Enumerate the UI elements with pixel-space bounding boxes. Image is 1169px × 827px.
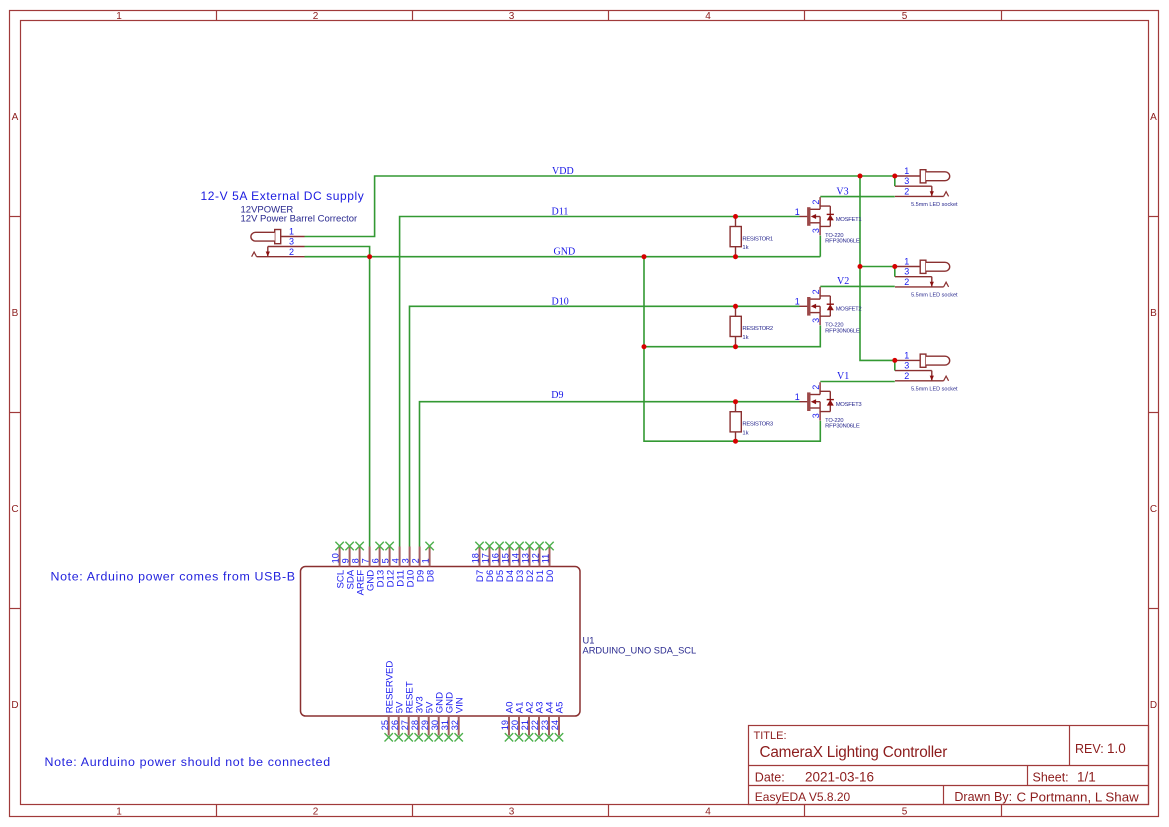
wire V3: Q1 drain to LED1 pin2 xyxy=(820,196,895,198)
svg-text:A5: A5 xyxy=(555,702,566,714)
junction xyxy=(892,358,897,363)
U1 pin 19 A0 xyxy=(500,702,516,742)
svg-text:REV:: REV: xyxy=(1075,742,1104,756)
resistor RESISTOR2 1k xyxy=(730,306,741,346)
U1 pin 12 D1 xyxy=(531,542,547,582)
svg-text:26: 26 xyxy=(390,720,400,730)
U1 pin 4 D11 xyxy=(391,547,407,587)
svg-text:30: 30 xyxy=(430,720,440,730)
junction xyxy=(892,264,897,269)
U1 pin 22 A3 xyxy=(530,702,546,742)
wire GND to Q2 source xyxy=(644,325,820,346)
svg-text:MOSFET3: MOSFET3 xyxy=(836,402,863,408)
svg-text:2: 2 xyxy=(313,11,319,22)
svg-text:1k: 1k xyxy=(742,335,748,341)
svg-text:32: 32 xyxy=(450,720,460,730)
svg-text:C: C xyxy=(11,504,18,515)
junction xyxy=(858,264,863,269)
svg-text:A: A xyxy=(12,112,19,123)
U1 pin 6 D13 xyxy=(371,542,387,588)
junction xyxy=(733,344,738,349)
junction xyxy=(733,214,738,219)
op-amp U1 ARDUINO_UNO box xyxy=(301,567,581,717)
wire barrel pin3 to GND junction xyxy=(305,247,370,257)
svg-text:GND: GND xyxy=(554,247,576,258)
junction xyxy=(642,254,647,259)
svg-text:D0: D0 xyxy=(545,570,556,582)
svg-text:1: 1 xyxy=(116,807,122,818)
svg-text:MOSFET1: MOSFET1 xyxy=(836,217,862,223)
svg-text:4: 4 xyxy=(705,11,711,22)
svg-text:8: 8 xyxy=(351,558,361,563)
svg-text:D: D xyxy=(1150,700,1157,711)
wire D9 from U1 pin2 to Q3 gate xyxy=(420,402,800,547)
U1 pin 14 D3 xyxy=(511,542,527,582)
svg-text:10: 10 xyxy=(331,553,341,563)
junction xyxy=(733,399,738,404)
svg-text:2: 2 xyxy=(289,247,294,257)
U1 pin 8 AREF xyxy=(351,542,367,596)
svg-text:VIN: VIN xyxy=(454,697,465,713)
svg-text:31: 31 xyxy=(440,720,450,730)
svg-text:3: 3 xyxy=(289,237,294,247)
wire GND rail down to Q3 source xyxy=(644,257,820,442)
svg-text:19: 19 xyxy=(500,720,510,730)
U1 pin 27 RESET xyxy=(400,681,416,741)
svg-text:1.0: 1.0 xyxy=(1107,741,1126,756)
svg-text:11: 11 xyxy=(541,554,551,564)
svg-text:16: 16 xyxy=(491,553,501,563)
svg-text:D11: D11 xyxy=(552,207,569,218)
svg-text:1/1: 1/1 xyxy=(1077,770,1096,785)
U1 pin 3 D10 xyxy=(401,547,417,588)
svg-text:Drawn By:: Drawn By: xyxy=(954,790,1012,804)
svg-text:Note: Arduino power comes from: Note: Arduino power comes from USB-B cab… xyxy=(51,570,333,584)
wire Q1 source to GND xyxy=(819,236,821,257)
junction xyxy=(892,174,897,179)
svg-text:TITLE:: TITLE: xyxy=(754,730,787,742)
svg-text:D9: D9 xyxy=(551,390,563,401)
U1 pin 18 D7 xyxy=(471,542,487,582)
junction xyxy=(367,254,372,259)
mosfet MOSFET1 TO-220 RFP30N06LE xyxy=(795,197,834,235)
svg-text:RFP30N06LE: RFP30N06LE xyxy=(825,328,860,334)
connector LED3 5.5mm LED socket xyxy=(895,350,958,392)
svg-text:13: 13 xyxy=(521,553,531,563)
svg-text:5: 5 xyxy=(902,807,908,818)
wire D11 from U1 pin4 to Q1 gate xyxy=(400,217,800,547)
wire LED2 pin1 to pin3 xyxy=(894,267,896,277)
svg-text:1: 1 xyxy=(289,227,294,237)
svg-text:12V Power Barrel Corrector: 12V Power Barrel Corrector xyxy=(241,214,358,225)
junction xyxy=(733,439,738,444)
resistor RESISTOR3 1k xyxy=(730,402,741,442)
svg-text:1: 1 xyxy=(421,558,431,563)
svg-text:U1: U1 xyxy=(583,636,595,646)
svg-text:V3: V3 xyxy=(836,186,848,197)
U1 pin 17 D6 xyxy=(481,542,497,582)
svg-text:V1: V1 xyxy=(837,371,849,382)
svg-text:D10: D10 xyxy=(552,297,569,308)
svg-text:23: 23 xyxy=(540,720,550,730)
svg-text:1k: 1k xyxy=(742,245,748,251)
svg-text:CameraX Lighting Controller: CameraX Lighting Controller xyxy=(760,744,948,761)
svg-text:28: 28 xyxy=(410,720,420,730)
U1 pin 5 D12 xyxy=(381,542,397,588)
U1 pin 2 D9 xyxy=(411,547,427,583)
connector LED2 5.5mm LED socket xyxy=(895,257,958,299)
svg-text:3: 3 xyxy=(509,807,515,818)
title block xyxy=(749,726,1149,805)
svg-text:RFP30N06LE: RFP30N06LE xyxy=(825,424,860,430)
svg-text:15: 15 xyxy=(501,553,511,563)
svg-text:D: D xyxy=(11,700,18,711)
U1 pin 10 SCL xyxy=(331,542,347,589)
junction xyxy=(642,344,647,349)
svg-text:4: 4 xyxy=(391,558,401,563)
junction xyxy=(733,254,738,259)
svg-text:3: 3 xyxy=(509,11,515,22)
svg-text:B: B xyxy=(1150,308,1157,319)
junction xyxy=(733,304,738,309)
junction xyxy=(858,174,863,179)
svg-text:V2: V2 xyxy=(837,276,849,287)
svg-text:5: 5 xyxy=(902,11,908,22)
svg-text:Sheet:: Sheet: xyxy=(1033,771,1069,785)
svg-text:Note: Aurduino power should no: Note: Aurduino power should not be conne… xyxy=(45,755,331,769)
U1 pin 25 RESERVED xyxy=(380,661,396,742)
mosfet MOSFET2 TO-220 RFP30N06LE xyxy=(795,287,834,325)
svg-text:4: 4 xyxy=(705,807,711,818)
svg-text:12-V 5A External DC supply: 12-V 5A External DC supply xyxy=(201,189,365,203)
svg-text:1: 1 xyxy=(116,11,122,22)
svg-text:1k: 1k xyxy=(742,430,748,436)
svg-text:14: 14 xyxy=(511,553,521,563)
svg-text:C: C xyxy=(1150,504,1157,515)
svg-text:20: 20 xyxy=(510,720,520,730)
U1 pin 24 A5 xyxy=(550,702,566,742)
U1 pin 21 A2 xyxy=(520,702,536,742)
svg-text:RESISTOR2: RESISTOR2 xyxy=(742,326,772,332)
svg-text:2: 2 xyxy=(411,558,421,563)
wire rail to LED2 pin1 xyxy=(860,266,895,268)
svg-text:5: 5 xyxy=(381,558,391,563)
svg-text:17: 17 xyxy=(481,553,491,563)
wire LED1 pin1 to pin3 xyxy=(894,176,896,186)
svg-text:2: 2 xyxy=(313,807,319,818)
svg-text:25: 25 xyxy=(380,720,390,730)
wire LED3 pin1 to pin3 xyxy=(894,360,896,370)
U1 pin 28 3V3 xyxy=(410,696,426,741)
svg-text:12: 12 xyxy=(531,553,541,563)
svg-text:18: 18 xyxy=(471,553,481,563)
U1 pin 1 D8 xyxy=(421,542,437,582)
svg-text:27: 27 xyxy=(400,720,410,730)
U1 pin 15 D4 xyxy=(501,542,517,582)
wire V1: Q3 drain to LED3 pin2 xyxy=(820,381,895,383)
svg-text:22: 22 xyxy=(530,720,540,730)
svg-text:3: 3 xyxy=(401,558,411,563)
title block text xyxy=(754,730,1140,804)
svg-text:Date:: Date: xyxy=(755,771,785,785)
U1 pin 7 GND xyxy=(361,547,377,592)
svg-text:RESISTOR3: RESISTOR3 xyxy=(742,422,773,428)
U1 pin 32 VIN xyxy=(450,697,466,741)
resistor RESISTOR1 1k xyxy=(730,217,741,257)
svg-text:ARDUINO_UNO SDA_SCL: ARDUINO_UNO SDA_SCL xyxy=(583,646,697,656)
svg-text:21: 21 xyxy=(520,720,530,730)
svg-text:RFP30N06LE: RFP30N06LE xyxy=(825,239,860,245)
svg-text:VDD: VDD xyxy=(552,166,574,177)
svg-text:24: 24 xyxy=(550,720,560,730)
svg-text:29: 29 xyxy=(420,720,430,730)
svg-text:2021-03-16: 2021-03-16 xyxy=(805,770,874,785)
connector LED1 5.5mm LED socket xyxy=(895,166,958,208)
svg-text:9: 9 xyxy=(341,558,351,563)
connector 12VPOWER barrel jack xyxy=(251,230,305,257)
U1 pin 13 D2 xyxy=(521,542,537,582)
mosfet MOSFET3 TO-220 RFP30N06LE xyxy=(795,382,834,420)
svg-text:6: 6 xyxy=(371,558,381,563)
U1 pin 30 GND xyxy=(430,692,446,742)
wire VDD rail down to LED3 pin1 xyxy=(860,176,895,360)
svg-text:B: B xyxy=(12,308,19,319)
wire GND horizontal xyxy=(305,256,821,258)
U1 pin 16 D5 xyxy=(491,542,507,582)
U1 pin 26 5V xyxy=(390,701,406,742)
svg-text:EasyEDA V5.8.20: EasyEDA V5.8.20 xyxy=(755,790,851,804)
svg-text:D8: D8 xyxy=(425,570,436,582)
U1 pin 29 5V xyxy=(420,701,436,742)
U1 pin 20 A1 xyxy=(510,702,526,742)
U1 pin 31 GND xyxy=(440,692,456,742)
svg-text:C Portmann, L Shaw: C Portmann, L Shaw xyxy=(1017,789,1140,804)
svg-text:A: A xyxy=(1150,112,1157,123)
wire V2: Q2 drain to LED2 pin2 xyxy=(820,285,895,287)
U1 pin 9 SDA xyxy=(341,542,357,590)
U1 pin 11 D0 xyxy=(541,542,557,582)
svg-text:MOSFET2: MOSFET2 xyxy=(836,307,862,313)
U1 pin 23 A4 xyxy=(540,701,556,742)
wire GND down to U1 pin7 xyxy=(369,257,371,547)
wire VDD: barrel pin1 up and across xyxy=(305,176,895,237)
svg-text:RESISTOR1: RESISTOR1 xyxy=(742,236,772,242)
wire D10 from U1 pin3 to Q2 gate xyxy=(410,306,800,546)
svg-text:7: 7 xyxy=(361,558,371,563)
